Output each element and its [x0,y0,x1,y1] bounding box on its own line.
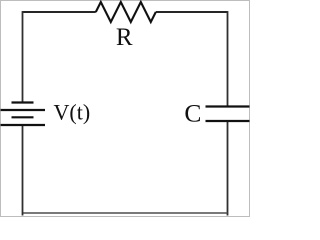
svg-text:R: R [116,24,133,51]
svg-text:V(t): V(t) [54,100,91,125]
svg-text:C: C [184,98,201,127]
